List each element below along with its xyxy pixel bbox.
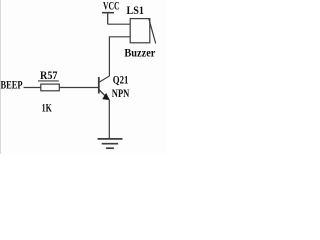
wire emitter to ground: [108, 100, 110, 139]
R57 underline: [38, 80, 59, 82]
wire BEEP to resistor: [24, 87, 41, 89]
emitter stroke: [99, 90, 109, 100]
left page border: [0, 0, 1, 154]
wire buzzer pin 2 to collector: [109, 37, 130, 76]
svg-text:VCC: VCC: [103, 0, 120, 13]
svg-text:1K: 1K: [42, 101, 53, 115]
svg-text:R57: R57: [40, 68, 58, 82]
svg-text:LS1: LS1: [127, 3, 145, 17]
resistor R57: [41, 84, 60, 91]
buzzer LS1: [130, 18, 156, 43]
svg-text:Buzzer: Buzzer: [124, 45, 156, 59]
transistor Q21: [99, 76, 110, 100]
svg-text:NPN: NPN: [112, 86, 130, 100]
ground: [98, 139, 123, 148]
collector stroke: [99, 76, 110, 82]
svg-text:BEEP: BEEP: [1, 77, 23, 91]
wire VCC to buzzer pin 1: [108, 23, 131, 25]
svg-text:Q21: Q21: [113, 72, 129, 86]
power VCC: [102, 13, 114, 25]
wire resistor to base: [59, 87, 99, 89]
base bar: [98, 77, 100, 94]
emitter arrowhead: [102, 93, 110, 100]
